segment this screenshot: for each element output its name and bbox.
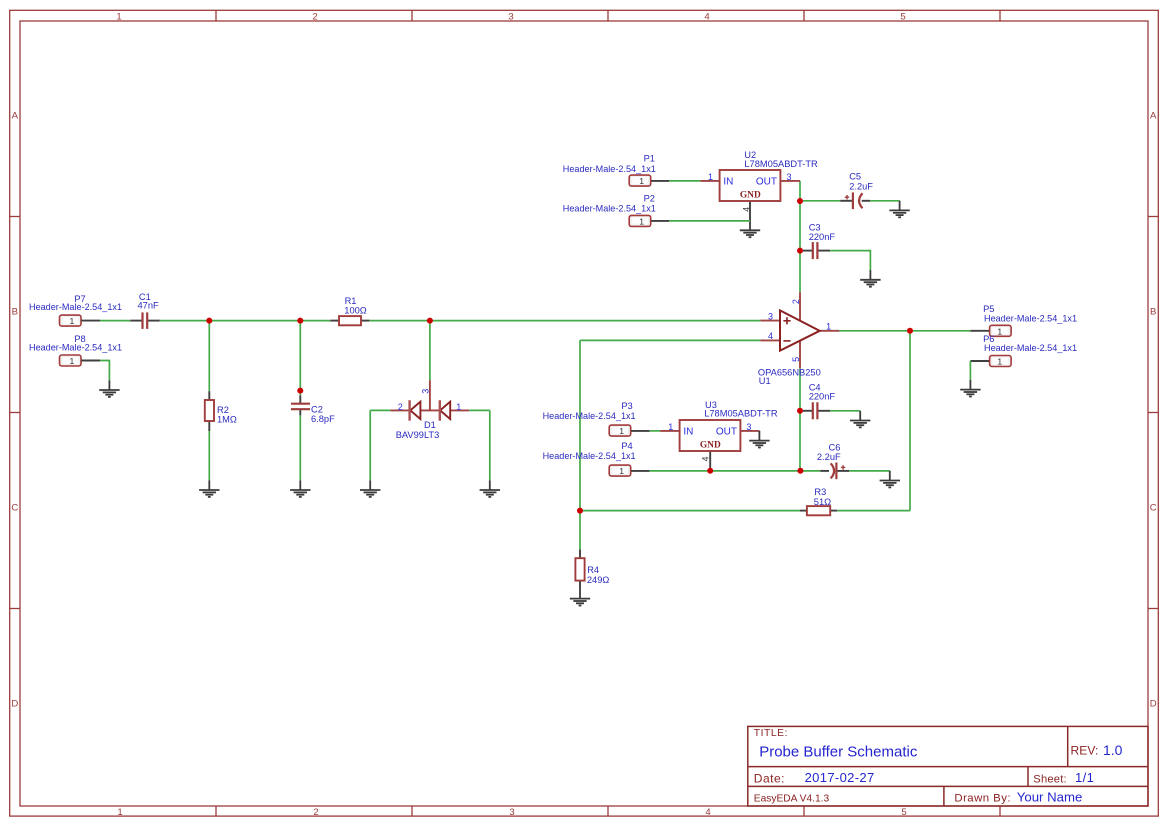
svg-text:EasyEDA V4.1.3: EasyEDA V4.1.3 (754, 794, 830, 805)
svg-text:GND: GND (700, 441, 721, 451)
ground (C4) (850, 411, 870, 428)
ground (C6) (880, 471, 900, 488)
svg-text:5: 5 (901, 807, 906, 818)
wire op-amp pin5 down to C4/P4 row (799, 368, 801, 471)
title block (748, 726, 1148, 806)
svg-text:OUT: OUT (756, 176, 777, 187)
wire feedback horizontal to op-amp pin4 (580, 339, 760, 341)
svg-text:IN: IN (683, 426, 693, 437)
ground (D1 pin2) (360, 480, 380, 497)
svg-text:A: A (1150, 110, 1157, 121)
svg-text:1: 1 (456, 402, 461, 412)
svg-text:R4: R4 (587, 565, 599, 575)
svg-text:1: 1 (708, 172, 713, 182)
wire D1 pin2 to ground (370, 410, 390, 480)
svg-text:Header-Male-2.54_1x1: Header-Male-2.54_1x1 (543, 411, 636, 421)
connector P3 (543, 401, 650, 436)
svg-text:4: 4 (742, 207, 752, 212)
svg-text:47nF: 47nF (138, 300, 160, 310)
svg-text:1MΩ: 1MΩ (217, 415, 237, 425)
svg-text:3: 3 (508, 12, 513, 23)
svg-text:REV:: REV: (1071, 744, 1099, 758)
wire C5 to ground (870, 200, 899, 202)
svg-text:2017-02-27: 2017-02-27 (805, 770, 875, 785)
svg-text:2: 2 (791, 299, 801, 304)
wire V+ rail vertical into op-amp pin2 (799, 181, 801, 292)
svg-text:R1: R1 (345, 296, 357, 306)
resistor R4 249ohm (575, 550, 609, 589)
node junction input/C2 (297, 318, 303, 324)
wire C4 to ground (830, 410, 860, 412)
svg-text:Header-Male-2.54_1x1: Header-Male-2.54_1x1 (543, 451, 636, 461)
diode D1 BAV99LT3 (390, 380, 469, 440)
svg-text:3: 3 (746, 422, 751, 432)
svg-text:BAV99LT3: BAV99LT3 (396, 430, 440, 440)
wire U3 out stem to ground (758, 430, 760, 432)
svg-text:5: 5 (900, 12, 905, 23)
svg-text:5: 5 (791, 357, 801, 362)
resistor R3 51ohm (800, 487, 837, 515)
regulator U2 L78M05ABDT-TR (700, 150, 818, 221)
capacitor C4 220nF (800, 382, 835, 419)
svg-text:3: 3 (768, 311, 773, 321)
connector P8 (29, 334, 122, 366)
svg-text:1/1: 1/1 (1075, 770, 1094, 785)
svg-text:L78M05ABDT-TR: L78M05ABDT-TR (744, 159, 818, 169)
svg-text:249Ω: 249Ω (587, 575, 610, 585)
svg-text:Sheet:: Sheet: (1033, 773, 1067, 785)
svg-text:Header-Male-2.54_1x1: Header-Male-2.54_1x1 (984, 343, 1077, 353)
svg-text:OUT: OUT (716, 426, 737, 437)
svg-text:100Ω: 100Ω (344, 306, 367, 316)
svg-text:220nF: 220nF (809, 232, 836, 242)
node junction V+/C3 (797, 248, 803, 254)
regulator U3 L78M05ABDT-TR (660, 400, 778, 471)
wire R1 to op-amp pin3 (370, 320, 761, 322)
node junction U2 out / C5 (797, 198, 803, 204)
svg-text:1: 1 (117, 807, 122, 818)
wire C3 to ground (830, 251, 870, 271)
resistor R1 100ohm (330, 296, 369, 325)
wire feedback vertical (579, 340, 581, 549)
connector P4 (543, 441, 650, 476)
wire C1 to R1 (input net) (160, 320, 330, 322)
node junction feedback/R3 (577, 508, 583, 514)
ground (U3 out) (749, 431, 769, 448)
svg-text:A: A (12, 110, 19, 121)
svg-text:1: 1 (668, 422, 673, 432)
svg-text:3: 3 (421, 389, 431, 394)
svg-text:6.8pF: 6.8pF (311, 414, 335, 424)
node junction above C2 (297, 388, 303, 394)
svg-text:51Ω: 51Ω (814, 497, 831, 507)
capacitor C1 47nF (130, 292, 160, 329)
capacitor C5 2.2uF (840, 172, 873, 209)
node junction V-/C4 (797, 408, 803, 414)
wire R3 to output vertical (837, 510, 910, 512)
svg-text:Header-Male-2.54_1x1: Header-Male-2.54_1x1 (563, 203, 656, 213)
svg-text:Header-Male-2.54_1x1: Header-Male-2.54_1x1 (29, 342, 122, 352)
wire C6 to ground (849, 470, 890, 472)
wire P2 to U2 gnd pin (669, 220, 750, 222)
node junction input/D1 (427, 318, 433, 324)
svg-text:B: B (12, 306, 18, 317)
wire R3 row left (580, 510, 800, 512)
op-amp U1 OPA656NB250 (758, 292, 840, 386)
svg-text:220nF: 220nF (809, 392, 836, 402)
svg-text:C: C (11, 502, 18, 513)
wire R2 to ground (208, 431, 210, 480)
svg-text:4: 4 (768, 331, 773, 341)
wire P8 to ground (100, 361, 109, 381)
svg-text:R2: R2 (217, 405, 229, 415)
svg-text:IN: IN (723, 176, 733, 187)
svg-text:P3: P3 (621, 401, 632, 411)
svg-text:TITLE:: TITLE: (754, 728, 788, 739)
svg-text:Header-Male-2.54_1x1: Header-Male-2.54_1x1 (563, 164, 656, 174)
ground (P6) (960, 380, 980, 397)
svg-text:D: D (1150, 698, 1157, 709)
svg-text:3: 3 (786, 172, 791, 182)
svg-text:B: B (1150, 306, 1156, 317)
resistor R2 1Mohm (205, 391, 237, 431)
svg-text:D: D (11, 698, 18, 709)
ground (P8) (99, 380, 119, 397)
wire P7 to C1 (100, 320, 130, 322)
wire C2 to ground (299, 415, 301, 480)
capacitor C3 220nF (800, 223, 835, 260)
svg-text:C5: C5 (849, 172, 861, 182)
connector P5 (970, 304, 1077, 336)
node junction V- rail / P4 row (797, 468, 803, 474)
wire P6 to ground (969, 361, 971, 380)
svg-text:R3: R3 (814, 487, 826, 497)
node junction input/R2 (206, 318, 212, 324)
svg-text:1.0: 1.0 (1103, 742, 1123, 758)
svg-text:Header-Male-2.54_1x1: Header-Male-2.54_1x1 (29, 302, 122, 312)
wire output down to R3 (909, 331, 911, 511)
svg-text:U1: U1 (759, 376, 771, 386)
svg-text:4: 4 (701, 456, 711, 461)
connector P1 (563, 153, 670, 186)
svg-text:Date:: Date: (754, 771, 785, 785)
wire input down to R2 (208, 321, 210, 392)
ground (U2 pin4) (740, 221, 760, 238)
svg-text:1: 1 (826, 321, 831, 331)
svg-text:Your Name: Your Name (1017, 789, 1083, 804)
svg-text:1: 1 (116, 12, 121, 23)
capacitor C6 2.2uF (817, 443, 849, 480)
svg-text:Probe Buffer Schematic: Probe Buffer Schematic (759, 744, 918, 761)
svg-text:Header-Male-2.54_1x1: Header-Male-2.54_1x1 (984, 313, 1077, 323)
svg-text:P4: P4 (621, 441, 632, 451)
wire P1 to U2 (669, 180, 700, 182)
connector P6 (970, 334, 1077, 366)
svg-text:Drawn By:: Drawn By: (954, 793, 1011, 805)
ground (C3) (860, 270, 880, 287)
connector P7 (29, 294, 122, 326)
ground (C5) (889, 201, 909, 218)
node junction output (907, 328, 913, 334)
svg-text:D1: D1 (424, 420, 436, 430)
wire D1 pin1 to ground (469, 410, 490, 480)
node junction U3 gnd / P4 row (707, 468, 713, 474)
svg-text:3: 3 (509, 807, 514, 818)
svg-text:C: C (1150, 502, 1157, 513)
wire U2 out to C5 (800, 200, 840, 202)
svg-text:C2: C2 (311, 404, 323, 414)
ground (D1 pin1) (480, 480, 500, 497)
svg-text:P2: P2 (644, 194, 655, 204)
ground (R2) (199, 480, 219, 497)
svg-text:2: 2 (312, 12, 317, 23)
wire P3 to U3 (650, 430, 660, 432)
svg-text:2: 2 (398, 402, 403, 412)
svg-text:L78M05ABDT-TR: L78M05ABDT-TR (704, 409, 778, 419)
svg-text:P1: P1 (644, 153, 655, 163)
svg-text:2: 2 (313, 807, 318, 818)
svg-text:4: 4 (705, 807, 711, 818)
svg-text:4: 4 (704, 12, 710, 23)
wire input down to C2 (299, 321, 301, 396)
svg-text:2.2uF: 2.2uF (817, 452, 841, 462)
wire input down to D1 pin3 (429, 321, 431, 381)
svg-text:GND: GND (740, 191, 761, 201)
capacitor C2 6.8pF (291, 395, 335, 424)
svg-text:2.2uF: 2.2uF (849, 181, 873, 191)
wire op-amp output to P5 (839, 330, 970, 332)
ground (R4) (570, 589, 590, 606)
ground (C2) (290, 480, 310, 497)
connector P2 (563, 194, 670, 227)
wire P4 row to C6 (650, 470, 821, 472)
